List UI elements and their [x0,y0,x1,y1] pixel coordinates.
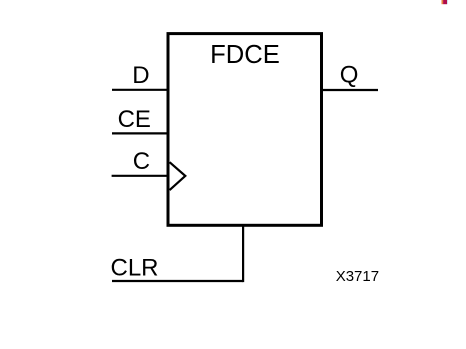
flip-flop U1 body (FDCE) [168,34,322,226]
clock edge triangle on pin C [170,162,186,190]
svg-text:X3717: X3717 [336,268,379,285]
page corner logo fragment (red) [442,0,449,4]
svg-text:Q: Q [340,61,359,88]
svg-text:CE: CE [118,106,151,133]
wire: input CLR (horizontal run) [112,280,243,282]
svg-text:CLR: CLR [111,255,159,282]
wire: input D [112,89,168,91]
svg-text:FDCE: FDCE [210,41,280,69]
svg-text:D: D [132,62,149,89]
wire: input C [112,175,168,177]
svg-text:C: C [133,148,150,175]
wire: input CLR (vertical run to box bottom) [242,225,244,282]
wire: output Q [322,89,379,91]
wire: input CE [112,132,168,134]
